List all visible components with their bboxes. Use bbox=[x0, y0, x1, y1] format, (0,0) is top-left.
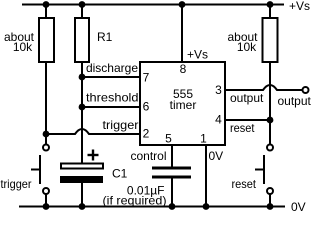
reset switch SW2 bbox=[255, 145, 273, 195]
op-amp 555 box U1 bbox=[140, 62, 225, 145]
wire left resistor top stub bbox=[45, 5, 47, 19]
wire 0V bottom rail bbox=[19, 206, 285, 208]
wire +Vs top rail bbox=[22, 4, 284, 6]
svg-text:3: 3 bbox=[215, 83, 222, 97]
svg-text:10k: 10k bbox=[13, 40, 33, 54]
svg-text:control: control bbox=[130, 149, 166, 163]
resistor R1 bbox=[75, 18, 89, 62]
wire reset pin 4 bbox=[225, 119, 270, 121]
junction top rail right resistor bbox=[267, 1, 274, 8]
svg-text:R1: R1 bbox=[97, 30, 113, 44]
junction 0V rail reset branch bbox=[267, 203, 274, 210]
svg-text:timer: timer bbox=[170, 98, 197, 112]
wire left branch down to trigger node bbox=[45, 62, 47, 145]
wire pin 1 to 0V rail bbox=[205, 145, 207, 207]
capacitor C2 0.01uF bottom plate bbox=[152, 176, 191, 179]
junction discharge node bbox=[79, 74, 86, 81]
svg-text:7: 7 bbox=[143, 70, 150, 84]
junction top rail R1 bbox=[79, 1, 86, 8]
svg-text:+Vs: +Vs bbox=[187, 48, 208, 62]
capacitor C2 0.01uF top plate bbox=[152, 167, 191, 170]
junction 0V rail trigger branch bbox=[43, 203, 50, 210]
svg-text:discharge: discharge bbox=[86, 61, 138, 75]
svg-text:reset: reset bbox=[232, 177, 257, 191]
svg-text:reset: reset bbox=[230, 121, 255, 135]
trigger switch SW1 bbox=[31, 145, 49, 195]
svg-text:output: output bbox=[278, 94, 312, 108]
wire R1 bottom down to C1 bbox=[81, 62, 83, 163]
wire R1 top stub bbox=[81, 5, 83, 19]
svg-text:5: 5 bbox=[165, 132, 172, 146]
svg-text:10k: 10k bbox=[237, 40, 257, 54]
junction top rail left bbox=[43, 1, 50, 8]
wire pin 5 to C2 bbox=[171, 145, 173, 167]
capacitor C1 top plate (polarised, hollow) bbox=[61, 164, 103, 169]
junction 0V rail pin1 branch bbox=[203, 203, 210, 210]
junction top rail pin8 bbox=[179, 1, 186, 8]
svg-text:threshold: threshold bbox=[86, 91, 139, 105]
svg-text:0V: 0V bbox=[291, 200, 306, 214]
wire trigger pin 2 with hop over C1 branch bbox=[46, 129, 140, 134]
wire reset switch bottom stub bbox=[269, 194, 271, 207]
junction threshold node bbox=[79, 104, 86, 111]
C1 polarity plus sign bbox=[88, 150, 99, 161]
resistor right "about 10k" bbox=[263, 18, 278, 62]
capacitor C1 bottom plate (solid) bbox=[60, 176, 103, 183]
resistor left "about 10k" bbox=[39, 18, 54, 62]
svg-text:0V: 0V bbox=[209, 149, 224, 163]
svg-text:output: output bbox=[230, 91, 264, 105]
junction trigger node bbox=[43, 131, 50, 138]
junction 0V rail C1 branch bbox=[79, 203, 86, 210]
svg-text:trigger: trigger bbox=[1, 177, 32, 191]
wire pin 8 to +Vs rail bbox=[181, 5, 183, 63]
svg-text:trigger: trigger bbox=[103, 118, 139, 132]
wire C1 bottom to 0V rail bbox=[81, 183, 83, 207]
wire right resistor top stub bbox=[269, 5, 271, 19]
svg-text:6: 6 bbox=[143, 100, 150, 114]
svg-text:2: 2 bbox=[143, 127, 150, 141]
wire trigger switch bottom stub bbox=[45, 194, 47, 207]
wire C2 to 0V rail bbox=[171, 178, 173, 207]
svg-text:4: 4 bbox=[215, 113, 222, 127]
svg-text:+Vs: +Vs bbox=[289, 0, 310, 13]
svg-text:C1: C1 bbox=[112, 167, 128, 181]
svg-text:(if required): (if required) bbox=[103, 194, 167, 208]
wire discharge pin 7 bbox=[82, 76, 140, 78]
wire output pin 3 with hop over resistor branch bbox=[225, 85, 303, 90]
wire right branch down to reset switch bbox=[269, 62, 271, 145]
svg-text:1: 1 bbox=[200, 132, 207, 146]
output terminal bbox=[303, 87, 309, 93]
junction reset node bbox=[267, 117, 274, 124]
svg-text:8: 8 bbox=[180, 62, 187, 76]
wire threshold pin 6 bbox=[82, 106, 140, 108]
junction 0V rail C2 branch bbox=[169, 203, 176, 210]
